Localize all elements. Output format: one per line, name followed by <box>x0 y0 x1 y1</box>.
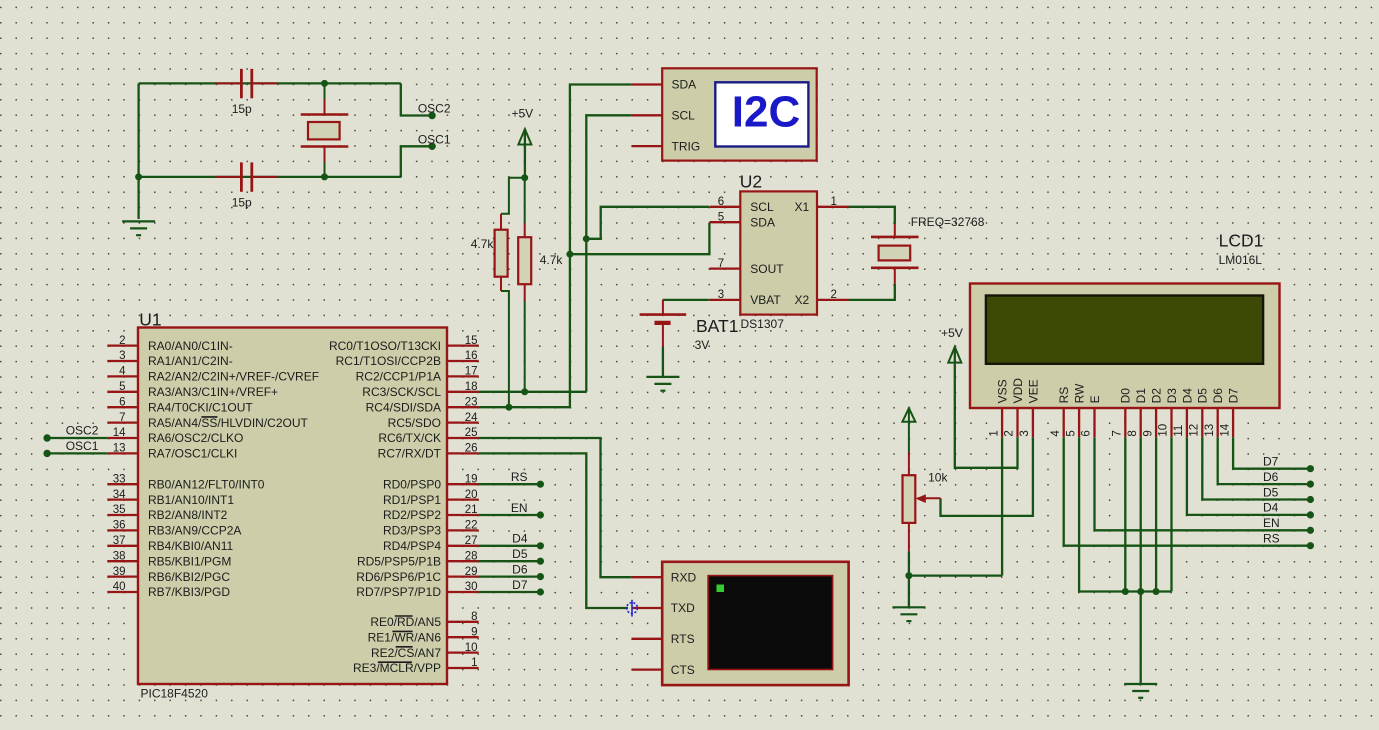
wire bus to ground <box>1140 592 1142 684</box>
I2C logo <box>715 82 808 146</box>
svg-text:38: 38 <box>113 550 126 562</box>
pin 14 stub (LCD D7) <box>1232 408 1234 437</box>
svg-text:BAT1: BAT1 <box>696 316 738 336</box>
svg-text:4: 4 <box>119 366 126 378</box>
wire VDD to +5V <box>955 348 1018 468</box>
wire D1 down to bus <box>1140 437 1142 591</box>
pin 39 stub (U1 RB6) <box>107 575 138 577</box>
wire RW to data-ground bus <box>1079 437 1171 591</box>
wire ground node to VSS <box>909 574 1002 576</box>
svg-text:RE2/CS/AN7: RE2/CS/AN7 <box>371 646 441 660</box>
svg-text:RA6/OSC2/CLKO: RA6/OSC2/CLKO <box>148 431 243 445</box>
svg-text:9: 9 <box>471 626 477 638</box>
wire SDA: debugger to junction <box>570 85 632 255</box>
svg-text:RD2/PSP2: RD2/PSP2 <box>383 508 441 522</box>
svg-text:3: 3 <box>1019 430 1031 436</box>
svg-text:DS1307: DS1307 <box>741 317 785 331</box>
junction D1 / bus / ground stem <box>1137 588 1144 595</box>
svg-text:3: 3 <box>119 350 125 362</box>
svg-text:RE0/RD/AN5: RE0/RD/AN5 <box>370 615 441 629</box>
svg-text:D6: D6 <box>1211 388 1225 404</box>
ground G-bat <box>646 377 679 391</box>
pin 34 stub (U1 RB1) <box>107 498 138 500</box>
svg-text:OSC1: OSC1 <box>418 132 451 146</box>
pin 33 stub (U1 RB0) <box>107 483 138 485</box>
wire D7 to terminal <box>1233 437 1307 469</box>
pin 15 stub (U1 RC0) <box>447 344 479 346</box>
pin 23 stub (U1 RC4) <box>447 406 479 408</box>
ground G-lcd <box>1124 684 1157 698</box>
svg-text:3V: 3V <box>695 338 710 352</box>
pin 7 stub (LCD D0) <box>1124 408 1126 437</box>
svg-text:18: 18 <box>465 381 478 393</box>
svg-text:26: 26 <box>465 443 478 455</box>
svg-text:RD3/PSP3: RD3/PSP3 <box>383 524 441 538</box>
pin SCL stub (U2) pin 6 <box>709 206 740 208</box>
svg-text:+5V: +5V <box>511 107 533 121</box>
svg-text:RA3/AN3/C1IN+/VREF+: RA3/AN3/C1IN+/VREF+ <box>148 385 278 399</box>
svg-text:RC3/SCK/SCL: RC3/SCK/SCL <box>362 385 441 399</box>
svg-text:10: 10 <box>465 642 478 654</box>
pin 30 stub (U1 RD7) <box>447 591 479 593</box>
svg-text:22: 22 <box>465 520 478 532</box>
svg-text:1: 1 <box>471 657 477 669</box>
node RS terminal <box>537 481 544 488</box>
svg-text:X2: X2 <box>795 293 810 307</box>
svg-text:RA2/AN2/C2IN+/VREF-/CVREF: RA2/AN2/C2IN+/VREF-/CVREF <box>148 370 319 384</box>
svg-text:OSC1: OSC1 <box>66 439 99 453</box>
pin SDA stub (I2C debugger) <box>631 83 662 85</box>
pin 10 stub (U1 RE2) <box>447 651 479 653</box>
svg-text:13: 13 <box>1204 424 1216 437</box>
svg-text:7: 7 <box>718 258 724 270</box>
svg-text:RB5/KBI1/PGM: RB5/KBI1/PGM <box>148 554 231 568</box>
pin 21 stub (U1 RD2) <box>447 514 479 516</box>
pin CTS stub (terminal) <box>631 668 662 670</box>
svg-text:11: 11 <box>1173 425 1185 437</box>
svg-text:OSC2: OSC2 <box>66 424 99 438</box>
pin 13 stub (U1 RA7) <box>107 452 138 454</box>
probe marker on TXD <box>627 600 638 617</box>
pin 1 stub (U1 RE3) <box>447 667 479 669</box>
pin 28 stub (U1 RD5) <box>447 560 479 562</box>
wire D4 to terminal <box>1187 437 1307 515</box>
svg-text:D3: D3 <box>1165 388 1179 404</box>
svg-text:9: 9 <box>1142 430 1154 436</box>
junction top rail / crystal <box>321 80 328 87</box>
svg-text:RD4/PSP4: RD4/PSP4 <box>383 539 441 553</box>
svg-text:6: 6 <box>1081 430 1093 436</box>
wire VEE to pot wiper <box>941 437 1033 516</box>
svg-text:D4: D4 <box>1263 501 1279 515</box>
pin X2 stub (U2) pin 2 <box>817 299 849 301</box>
junction bottom rail / left rail <box>135 173 142 180</box>
svg-text:4.7k: 4.7k <box>471 237 495 251</box>
capacitor C2 15p <box>215 162 278 191</box>
pin 11 stub (LCD D4) <box>1186 408 1188 437</box>
pin 6 stub (U1 RA4) <box>107 406 138 408</box>
node EN terminal (right) <box>1307 527 1314 534</box>
pin 29 stub (U1 RD6) <box>447 575 479 577</box>
svg-text:34: 34 <box>113 489 126 501</box>
pin 27 stub (U1 RD4) <box>447 545 479 547</box>
overline RD <box>395 615 413 617</box>
node OSC1 terminal (left) <box>43 450 50 457</box>
svg-text:2: 2 <box>119 335 125 347</box>
terminal cursor <box>717 585 725 593</box>
I2C debugger body <box>662 68 817 160</box>
node RS terminal (right) <box>1307 542 1314 549</box>
overline SS (RA5) <box>201 416 217 418</box>
svg-text:29: 29 <box>465 566 478 578</box>
svg-text:RD1/PSP1: RD1/PSP1 <box>383 493 441 507</box>
svg-text:D7: D7 <box>1227 388 1241 404</box>
svg-text:RW: RW <box>1073 383 1087 403</box>
svg-text:RC4/SDI/SDA: RC4/SDI/SDA <box>366 400 441 414</box>
wire D5 net from U1 <box>479 560 538 562</box>
svg-text:RB6/KBI2/PGC: RB6/KBI2/PGC <box>148 570 230 584</box>
svg-text:D4: D4 <box>512 532 528 546</box>
wire D0 down to bus <box>1124 437 1126 591</box>
pin 25 stub (U1 RC6) <box>447 437 479 439</box>
svg-text:RC6/TX/CK: RC6/TX/CK <box>378 431 441 445</box>
svg-text:RB3/AN9/CCP2A: RB3/AN9/CCP2A <box>148 524 241 538</box>
svg-text:RS: RS <box>511 470 528 484</box>
svg-text:D0: D0 <box>1119 388 1133 404</box>
node D4 terminal (right) <box>1307 511 1314 518</box>
svg-text:SDA: SDA <box>672 78 697 92</box>
svg-text:+5V: +5V <box>941 326 963 340</box>
svg-text:RA5/AN4/SS/HLVDIN/C2OUT: RA5/AN4/SS/HLVDIN/C2OUT <box>148 416 308 430</box>
svg-text:5: 5 <box>1065 430 1077 436</box>
node D7 terminal (right) <box>1307 465 1314 472</box>
svg-text:7: 7 <box>119 412 125 424</box>
svg-text:4.7k: 4.7k <box>540 253 564 267</box>
pin 35 stub (U1 RB2) <box>107 514 138 516</box>
overline WR <box>392 630 412 632</box>
svg-text:RTS: RTS <box>671 632 695 646</box>
power arrow (pot) <box>902 408 915 422</box>
svg-text:33: 33 <box>113 473 126 485</box>
svg-text:CTS: CTS <box>671 663 695 677</box>
pin 24 stub (U1 RC5) <box>447 421 479 423</box>
svg-text:D5: D5 <box>1263 485 1279 499</box>
pin 5 stub (LCD RW) <box>1078 408 1080 437</box>
wire battery to ground <box>662 347 664 377</box>
svg-text:RA7/OSC1/CLKI: RA7/OSC1/CLKI <box>148 447 237 461</box>
svg-text:VSS: VSS <box>996 379 1010 403</box>
svg-text:RC1/T1OSI/CCP2B: RC1/T1OSI/CCP2B <box>336 354 441 368</box>
pin X1 stub (U2) pin 1 <box>817 206 849 208</box>
svg-text:RB4/KBI0/AN11: RB4/KBI0/AN11 <box>148 539 233 553</box>
pin 1 stub (LCD VSS) <box>1001 408 1003 437</box>
svg-text:37: 37 <box>113 535 126 547</box>
svg-text:15p: 15p <box>232 196 252 210</box>
pin 12 stub (LCD D5) <box>1201 408 1203 437</box>
junction bottom rail / crystal <box>321 173 328 180</box>
svg-text:6: 6 <box>119 396 125 408</box>
pin 2 stub (U1 RA0) <box>107 344 138 346</box>
pin TXD stub (terminal) <box>631 607 662 609</box>
pin 8 stub (LCD D1) <box>1140 408 1142 437</box>
svg-text:RS: RS <box>1057 387 1071 404</box>
svg-text:RXD: RXD <box>671 570 697 584</box>
wire XTAL bottom rail <box>139 176 401 178</box>
svg-text:6: 6 <box>718 196 724 208</box>
pin 3 stub (LCD VEE) <box>1032 408 1034 437</box>
node OSC1 terminal <box>428 143 435 150</box>
pin 8 stub (U1 RE0) <box>447 621 479 623</box>
overline MCLR <box>378 661 412 663</box>
power +5V arrow (LCD) <box>948 347 961 363</box>
pin 19 stub (U1 RD0) <box>447 483 479 485</box>
pin 3 stub (U1 RA1) <box>107 360 138 362</box>
wire to OSC1 terminal <box>401 146 430 177</box>
MCU U1 body <box>138 328 447 685</box>
wire D1 down to bus <box>1155 437 1157 591</box>
svg-text:VDD: VDD <box>1011 378 1025 404</box>
node D5 terminal (right) <box>1307 496 1314 503</box>
svg-text:D2: D2 <box>1150 388 1164 404</box>
svg-text:19: 19 <box>465 473 478 485</box>
svg-text:14: 14 <box>1219 423 1231 436</box>
svg-text:RD7/PSP7/P1D: RD7/PSP7/P1D <box>356 585 441 599</box>
pin SOUT stub (U2) pin 7 <box>709 267 740 269</box>
svg-text:I2C: I2C <box>732 88 800 137</box>
svg-text:RD6/PSP6/P1C: RD6/PSP6/P1C <box>356 570 441 584</box>
svg-text:VBAT: VBAT <box>750 293 781 307</box>
svg-text:RD0/PSP0: RD0/PSP0 <box>383 477 441 491</box>
pin 36 stub (U1 RB3) <box>107 529 138 531</box>
svg-text:25: 25 <box>465 427 478 439</box>
pin 2 stub (LCD VDD) <box>1016 408 1018 437</box>
svg-text:OSC2: OSC2 <box>418 102 451 116</box>
svg-text:39: 39 <box>113 566 126 578</box>
node EN terminal <box>537 511 544 518</box>
pin TRIG stub (I2C debugger) <box>631 145 662 147</box>
svg-text:RA0/AN0/C1IN-: RA0/AN0/C1IN- <box>148 339 233 353</box>
svg-text:TRIG: TRIG <box>672 139 701 153</box>
svg-text:12: 12 <box>1189 424 1201 437</box>
svg-text:40: 40 <box>113 581 126 593</box>
node D6 terminal <box>537 573 544 580</box>
svg-text:17: 17 <box>465 366 478 378</box>
pin RTS stub (terminal) <box>631 638 662 640</box>
junction R1 / SDA wire <box>505 404 512 411</box>
wire TX (pin25) to RXD <box>479 438 632 577</box>
svg-text:SDA: SDA <box>750 215 775 229</box>
svg-text:2: 2 <box>1004 430 1016 436</box>
junction R2 / SCL wire <box>521 388 528 395</box>
wire E to terminal <box>1095 437 1308 530</box>
svg-text:D4: D4 <box>1180 388 1194 404</box>
wire D5 to terminal <box>1202 437 1307 499</box>
ground G-pot <box>892 607 925 621</box>
junction SDA node <box>566 251 573 258</box>
svg-text:20: 20 <box>465 489 478 501</box>
wire battery to VBAT <box>663 299 709 301</box>
pin 38 stub (U1 RB5) <box>107 560 138 562</box>
wire +5V to junction <box>524 131 526 178</box>
svg-text:RA4/T0CKI/C1OUT: RA4/T0CKI/C1OUT <box>148 400 253 414</box>
wire SCL: debugger to junction <box>586 115 631 239</box>
pin 18 stub (U1 RC3) <box>447 391 479 393</box>
svg-text:RB7/KBI3/PGD: RB7/KBI3/PGD <box>148 585 230 599</box>
svg-text:16: 16 <box>465 350 478 362</box>
svg-text:3: 3 <box>718 289 724 301</box>
wire crystal to X2 <box>849 284 895 300</box>
node D4 terminal <box>537 542 544 549</box>
pin 4 stub (U1 RA2) <box>107 375 138 377</box>
svg-text:LCD1: LCD1 <box>1219 231 1264 251</box>
wire VSS down <box>1001 437 1003 575</box>
svg-text:RB1/AN10/INT1: RB1/AN10/INT1 <box>148 493 234 507</box>
virtual terminal body <box>662 562 848 685</box>
node D6 terminal (right) <box>1307 481 1314 488</box>
svg-text:E: E <box>1088 395 1102 403</box>
resistor R1 4.7k <box>495 178 525 408</box>
wire OSC1 terminal to RA7 <box>47 452 107 454</box>
svg-text:4: 4 <box>1050 430 1062 437</box>
node OSC2 terminal <box>428 112 435 119</box>
svg-text:RE3/MCLR/VPP: RE3/MCLR/VPP <box>353 661 441 675</box>
junction SCL node <box>583 235 590 242</box>
node OSC2 terminal (left) <box>43 434 50 441</box>
node D7 terminal <box>537 588 544 595</box>
wire SDA: junction down to RC4 <box>569 254 571 407</box>
wire SCL: junction down to RC3 <box>585 239 587 392</box>
LCD body <box>970 284 1280 409</box>
wire RX (pin26) to TXD <box>479 453 628 608</box>
svg-text:21: 21 <box>465 504 478 516</box>
wire SCL: junction to U2 <box>586 207 709 239</box>
pin 6 stub (LCD E) <box>1093 408 1095 437</box>
pin SCL stub (I2C debugger) <box>631 114 662 116</box>
svg-text:27: 27 <box>465 535 478 547</box>
junction +5V / R1 R2 <box>521 174 528 181</box>
wire RS to terminal <box>1064 437 1307 546</box>
svg-text:D7: D7 <box>1263 455 1279 469</box>
pin 7 stub (U1 RA5) <box>107 421 138 423</box>
resistor R2 4.7k <box>518 178 531 392</box>
junction D2 / bus <box>1153 588 1160 595</box>
wire D6 to terminal <box>1218 437 1307 484</box>
svg-text:SCL: SCL <box>672 109 696 123</box>
wire EN net from U1 <box>479 514 538 516</box>
svg-text:7: 7 <box>1112 430 1124 436</box>
overline CS <box>396 646 413 648</box>
svg-text:SOUT: SOUT <box>750 262 784 276</box>
svg-text:30: 30 <box>465 581 478 593</box>
wire RS net from U1 <box>479 483 538 485</box>
wire left rail down to ground <box>137 83 139 219</box>
svg-text:10: 10 <box>1158 424 1170 437</box>
svg-text:RA1/AN1/C2IN-: RA1/AN1/C2IN- <box>148 354 233 368</box>
pin SDA stub (U2) pin 5 <box>709 221 740 223</box>
svg-text:RD5/PSP5/P1B: RD5/PSP5/P1B <box>357 554 441 568</box>
svg-text:PIC18F4520: PIC18F4520 <box>141 686 209 700</box>
capacitor C1 15p <box>215 69 278 98</box>
svg-text:RC7/RX/DT: RC7/RX/DT <box>378 447 442 461</box>
svg-text:5: 5 <box>119 381 125 393</box>
svg-text:8: 8 <box>471 611 477 623</box>
pin RXD stub (terminal) <box>631 576 662 578</box>
pin 37 stub (U1 RB4) <box>107 545 138 547</box>
pin 16 stub (U1 RC1) <box>447 360 479 362</box>
wire RC3/SCK/SCL pin 18 <box>479 391 587 393</box>
svg-text:28: 28 <box>465 550 478 562</box>
wire pot to ground node <box>908 551 910 575</box>
pin 40 stub (U1 RB7) <box>107 591 138 593</box>
svg-text:D5: D5 <box>512 547 528 561</box>
wire X1 to crystal <box>849 207 895 224</box>
svg-text:U2: U2 <box>740 172 762 192</box>
battery BAT1 <box>640 300 687 347</box>
svg-text:14: 14 <box>113 427 126 439</box>
wire XTAL top rail <box>139 82 401 84</box>
pin 9 stub (LCD D2) <box>1155 408 1157 437</box>
svg-text:1: 1 <box>831 196 837 208</box>
terminal screen <box>708 576 833 670</box>
svg-text:SCL: SCL <box>750 200 774 214</box>
LCD screen <box>986 296 1263 364</box>
svg-text:23: 23 <box>465 396 478 408</box>
pin 14 stub (U1 RA6) <box>107 437 138 439</box>
svg-text:RC2/CCP1/P1A: RC2/CCP1/P1A <box>356 370 441 384</box>
wire D7 net from U1 <box>479 591 538 593</box>
pin VBAT stub (U2) pin 3 <box>709 299 740 301</box>
svg-text:EN: EN <box>1263 516 1280 530</box>
svg-text:D6: D6 <box>512 562 528 576</box>
svg-text:RS: RS <box>1263 532 1280 546</box>
pin 17 stub (U1 RC2) <box>447 375 479 377</box>
svg-text:X1: X1 <box>795 200 810 214</box>
pin 26 stub (U1 RC7) <box>447 452 479 454</box>
ground G-osc <box>122 221 155 235</box>
svg-text:D5: D5 <box>1196 388 1210 404</box>
wire to ground G-pot <box>908 576 910 607</box>
RTC U2 body <box>740 191 817 314</box>
svg-text:10k: 10k <box>928 471 948 485</box>
pin 9 stub (U1 RE1) <box>447 636 479 638</box>
svg-text:LM016L: LM016L <box>1219 253 1263 267</box>
wire to OSC2 terminal <box>401 83 430 115</box>
svg-text:15p: 15p <box>232 102 252 116</box>
pin 13 stub (LCD D6) <box>1217 408 1219 437</box>
svg-text:TXD: TXD <box>671 601 695 615</box>
potentiometer RV1 10k <box>903 410 941 552</box>
svg-text:8: 8 <box>1127 430 1139 436</box>
svg-text:VEE: VEE <box>1026 379 1040 403</box>
svg-text:D6: D6 <box>1263 470 1279 484</box>
svg-text:1: 1 <box>988 430 1000 436</box>
svg-text:24: 24 <box>465 412 478 424</box>
svg-text:EN: EN <box>511 501 528 515</box>
wire SDA: junction to U2 <box>570 223 710 255</box>
junction D0 / bus <box>1122 588 1129 595</box>
pin 20 stub (U1 RD1) <box>447 498 479 500</box>
svg-text:15: 15 <box>465 335 478 347</box>
svg-text:RC5/SDO: RC5/SDO <box>388 416 441 430</box>
power +5V arrow (pull-ups) <box>518 129 531 144</box>
pin 10 stub (LCD D3) <box>1170 408 1172 437</box>
svg-text:5: 5 <box>718 211 724 223</box>
svg-text:2: 2 <box>831 289 837 301</box>
pin 4 stub (LCD RS) <box>1063 408 1065 437</box>
node D5 terminal <box>537 558 544 565</box>
wire D3 down to bus <box>1170 437 1172 591</box>
wire D4 net from U1 <box>479 545 538 547</box>
